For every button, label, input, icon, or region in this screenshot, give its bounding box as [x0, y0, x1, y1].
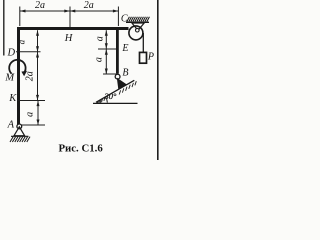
- svg-text:2a: 2a: [84, 0, 94, 11]
- tick at E level: [98, 48, 117, 50]
- pin support A: ground hatching: [10, 137, 30, 142]
- weight P box: [140, 52, 147, 63]
- ceiling hatching at C: [127, 17, 150, 22]
- right column C-B (vertical member): [116, 27, 119, 74]
- pin support A: hinge circle: [17, 124, 22, 129]
- svg-text:a: a: [94, 57, 105, 62]
- svg-text:P: P: [147, 52, 154, 63]
- svg-text:30°: 30°: [104, 91, 118, 101]
- left column A-D (vertical member): [17, 27, 20, 126]
- svg-text:Рис. С1.6: Рис. С1.6: [58, 142, 103, 154]
- svg-text:2a: 2a: [35, 0, 45, 11]
- top dimension arrowheads: [20, 10, 118, 13]
- svg-text:2a: 2a: [25, 71, 36, 81]
- left page-edge line: [3, 0, 4, 56]
- roller support B: hinge circle: [115, 74, 120, 79]
- svg-text:B: B: [122, 68, 128, 79]
- tick at K level: [17, 100, 45, 102]
- svg-text:E: E: [121, 43, 128, 54]
- tick at B level: [103, 73, 117, 75]
- ground line below incline: [93, 102, 138, 104]
- top dimension line 2a+2a: [20, 7, 119, 28]
- right dimension a (beam to E): [105, 30, 107, 49]
- ceiling line at C: [126, 21, 149, 23]
- rope from pulley to weight: [142, 33, 144, 53]
- svg-text:a: a: [94, 36, 105, 41]
- tick at D level: [16, 51, 41, 53]
- left dimension a (beam to D): [37, 30, 39, 52]
- svg-text:a: a: [16, 39, 26, 44]
- left dimension a (K to A): [37, 101, 39, 125]
- incline hatching: [97, 81, 136, 103]
- tick at A level: [21, 124, 45, 126]
- beam DHC (top horizontal member): [17, 27, 129, 30]
- svg-text:H: H: [64, 33, 74, 44]
- svg-text:M: M: [4, 73, 15, 84]
- svg-text:a: a: [24, 112, 35, 117]
- svg-text:D: D: [7, 47, 16, 58]
- svg-text:C: C: [121, 14, 128, 25]
- pulley hub: [136, 28, 140, 32]
- moment M arc at D: [9, 60, 25, 74]
- svg-text:K: K: [8, 93, 17, 104]
- left dimension 2a (D to K): [37, 52, 39, 100]
- right dimension a (E to B): [105, 49, 107, 74]
- pin support A: ground line: [11, 135, 29, 137]
- inclined surface line: [96, 80, 134, 102]
- pin support A: triangle: [14, 127, 25, 136]
- right page-edge line: [157, 0, 159, 160]
- roller support B: wedge: [117, 78, 126, 88]
- pulley wheel: [129, 26, 143, 40]
- moment M arrowhead: [21, 71, 27, 77]
- 30 degree angle arc: [106, 97, 108, 103]
- pulley bracket triangle at C: [132, 23, 144, 30]
- svg-text:A: A: [7, 120, 15, 131]
